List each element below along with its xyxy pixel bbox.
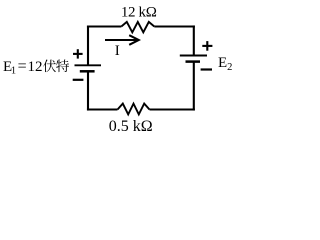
svg-text:12 kΩ: 12 kΩ [121, 5, 157, 21]
label CJK te volt glyph [56, 60, 69, 73]
wire left lower segment [87, 71, 89, 110]
battery E1 plus sign [73, 49, 83, 58]
label CJK fu volt glyph [43, 59, 56, 72]
wire bottom-right segment [150, 108, 195, 110]
svg-text:0.5 kΩ: 0.5 kΩ [109, 118, 153, 135]
svg-text:12: 12 [28, 59, 43, 75]
label E2 [218, 55, 232, 73]
svg-text:1: 1 [11, 65, 16, 76]
battery E1 negative plate [80, 70, 95, 73]
wire bottom-left segment [87, 108, 118, 110]
resistor R1 zigzag 12 kOhm [121, 22, 154, 32]
label E1 equals 12 volts [3, 58, 43, 77]
wire top-left segment [87, 25, 121, 27]
wire right lower segment [193, 62, 195, 111]
battery E2 plus sign [202, 41, 212, 51]
battery E1 positive plate [75, 64, 102, 66]
battery E2 minus sign [201, 68, 212, 70]
svg-text:I: I [115, 43, 120, 59]
current arrow I shaft and head [105, 35, 139, 45]
battery E1 minus sign [73, 79, 84, 81]
battery E2 negative plate [186, 60, 201, 63]
battery E2 positive plate [180, 55, 207, 57]
svg-text:=: = [18, 58, 27, 75]
wire left upper segment [87, 26, 89, 66]
svg-text:E: E [218, 55, 227, 71]
wire top-right segment [154, 25, 195, 27]
svg-text:2: 2 [227, 62, 232, 73]
resistor R2 zigzag 0.5 kOhm [118, 104, 150, 115]
wire right upper segment [193, 25, 195, 55]
